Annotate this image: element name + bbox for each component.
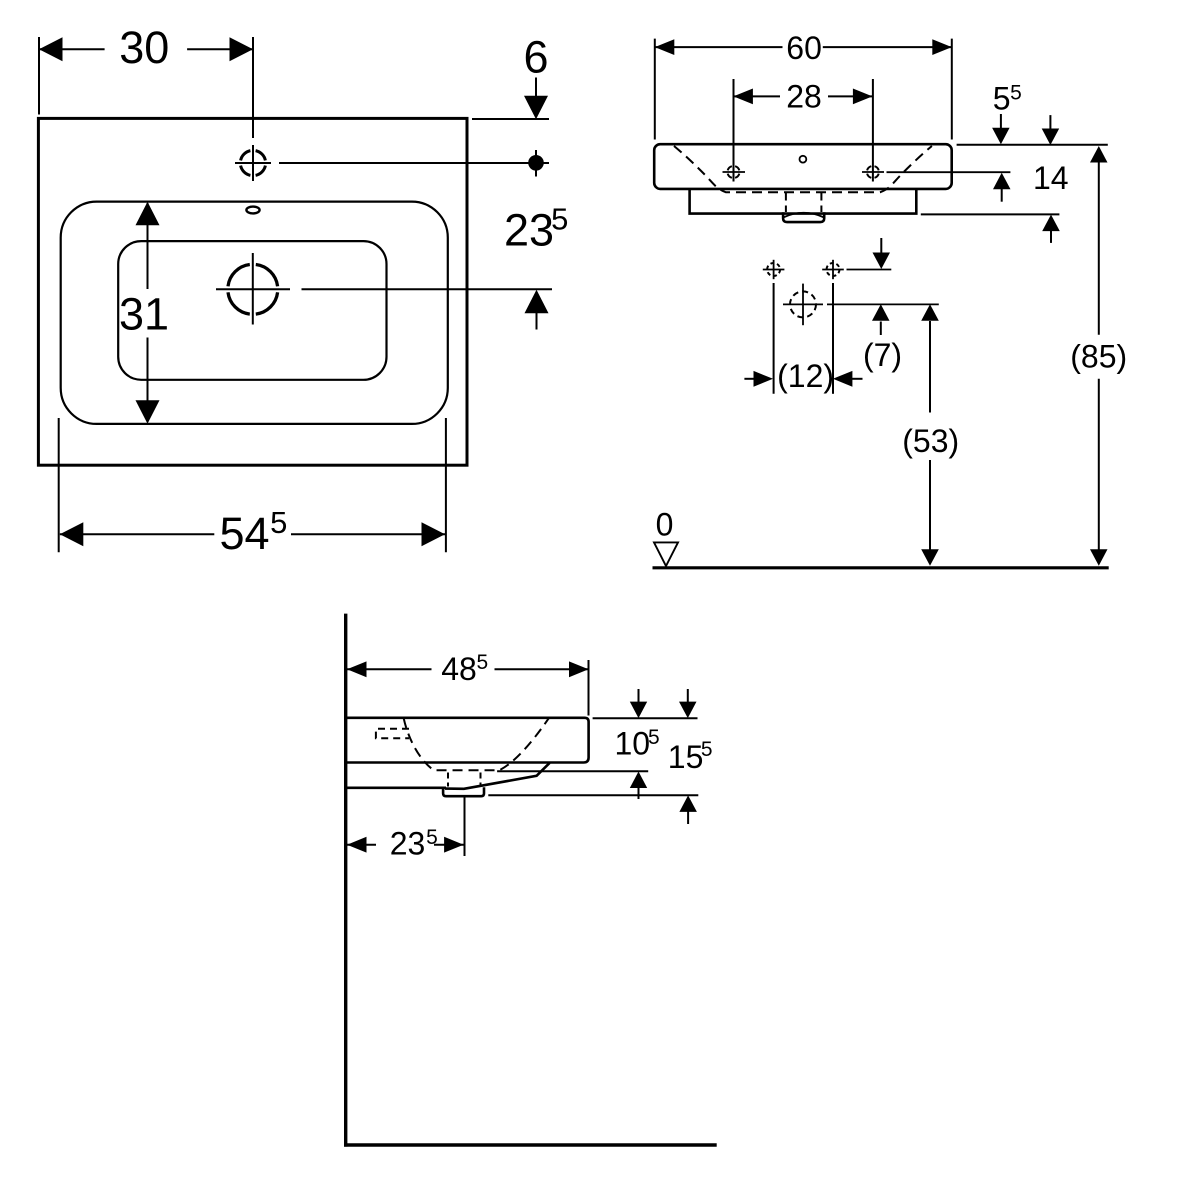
datum 0: label	[656, 507, 674, 543]
dimension 23.5 (side): value label with superscript	[390, 826, 438, 862]
dimension 7: value label	[863, 337, 902, 373]
dimension 10.5: down arrow to slab top edge	[630, 689, 647, 718]
front view: slab top edge extension line right	[957, 144, 1108, 146]
dimension 28 (front): dimension line and arrows	[733, 89, 872, 105]
svg-text:28: 28	[786, 78, 822, 114]
svg-text:5: 5	[648, 726, 660, 749]
plan view: faucet hole centerline vertical	[252, 37, 254, 181]
front view: hidden bowl profile (dashed)	[674, 146, 932, 192]
front view: drain pipe hole (dashed circle)	[783, 284, 939, 326]
front view: pedestal bottom edge extension line	[921, 213, 1060, 215]
front view: basin slab outline	[654, 144, 952, 189]
svg-text:6: 6	[523, 32, 548, 83]
dimension 54.5 (plan): value label with superscript	[219, 505, 287, 559]
side view: hidden bowl profile (dashed)	[404, 718, 549, 770]
plan view: overflow slot	[246, 207, 259, 214]
svg-text:(53): (53)	[902, 423, 959, 459]
svg-text:(12): (12)	[777, 358, 834, 394]
dimension 30 (plan, top): dimension line and arrows	[39, 37, 253, 61]
plan view: rim top edge extension line	[472, 118, 549, 120]
datum 0: open triangle symbol	[654, 542, 678, 566]
dimension 14: up arrow to pedestal bottom extension	[1042, 215, 1060, 243]
dimension 30 (plan, top): value label	[119, 22, 169, 73]
dimension 31 (plan, vertical): dimension line and arrows	[136, 202, 160, 424]
svg-text:5: 5	[993, 80, 1011, 116]
svg-text:60: 60	[786, 30, 822, 66]
plan view: inner basin outline (rounded)	[61, 202, 448, 424]
dimension 7: down arrow to bolt hole centerline	[873, 238, 891, 269]
dimension 14 (front): down arrow to slab top edge	[1042, 115, 1060, 145]
dimension 28 (front): value label	[786, 78, 822, 114]
svg-text:(85): (85)	[1070, 338, 1127, 374]
svg-text:5: 5	[701, 738, 713, 761]
svg-text:31: 31	[119, 288, 169, 339]
side view: hidden drain pipe edges (dashed)	[448, 773, 481, 787]
side view: wall line	[344, 614, 347, 1147]
dimension 12: value label	[777, 358, 834, 394]
dimension 5.5: up arrow to faucet centerline	[993, 173, 1011, 202]
plan view: drain centerline horizontal	[216, 288, 552, 290]
svg-text:5: 5	[426, 826, 438, 849]
dimension 48.5 (side): value label with superscript	[441, 651, 488, 687]
dimension 53: value label	[902, 423, 959, 459]
front view: drain trap cup	[783, 212, 824, 222]
side view: basin slab profile	[346, 718, 589, 763]
dimension 23.5 (plan): value label with superscript	[504, 201, 568, 255]
svg-text:23: 23	[504, 204, 554, 255]
front view: right faucet centerline extension	[887, 171, 1011, 173]
front view: overflow hole	[800, 156, 807, 163]
side view: drain centerline down from cup	[464, 796, 466, 856]
plan view: washbasin outer rim rectangle	[38, 118, 467, 465]
dimension 15.5: down arrow to slab top edge	[679, 689, 697, 718]
dimension 12: witness lines from bolt holes	[774, 283, 833, 394]
plan view: basin flat bottom outline (rounded)	[118, 241, 386, 380]
svg-text:14: 14	[1033, 160, 1069, 196]
dimension 60 (front, top): witness lines	[655, 39, 952, 140]
side view: slab top edge extension line	[593, 717, 698, 719]
dimension 48.5 (side): witness line right	[588, 660, 590, 716]
dimension 5.5: down arrow to slab top edge	[992, 114, 1010, 144]
dimension 7: up arrow to drain centerline	[872, 304, 890, 335]
dimension 48.5 (side): dimension line and arrows	[347, 661, 589, 677]
side view: underside reference line (10.5)	[497, 770, 648, 772]
svg-text:48: 48	[441, 651, 477, 687]
plan view: faucet hole (circle with cardinal gaps)	[241, 151, 266, 176]
side view: underside sloped edge	[445, 763, 550, 789]
front view: floor line	[653, 566, 1109, 569]
svg-text:5: 5	[1010, 81, 1022, 104]
side view: floor line	[344, 1143, 717, 1146]
dimension 6: down arrow to rim top edge	[524, 78, 548, 120]
svg-text:30: 30	[119, 22, 169, 73]
plan view: drain hole (circle with cardinal gaps)	[228, 265, 278, 315]
side view: trap bottom reference line (15.5)	[488, 794, 698, 796]
front view: left faucet hole	[723, 166, 746, 178]
svg-text:10: 10	[615, 725, 651, 761]
plan view: drain centerline vertical	[252, 253, 254, 325]
svg-text:54: 54	[219, 508, 269, 559]
dimension 5.5 (front): value label with superscript	[993, 80, 1022, 116]
svg-text:(7): (7)	[863, 337, 902, 373]
front view: right faucet hole	[862, 166, 884, 178]
dimension 54.5 (plan, bottom): witness line right	[445, 418, 447, 552]
svg-text:5: 5	[270, 505, 287, 540]
dimension 28 (front): witness lines	[734, 79, 873, 182]
dimension 54.5 (plan, bottom): dimension line and arrows	[60, 522, 445, 546]
dimension 23.5 (plan): up arrow to drain centerline	[525, 290, 549, 330]
dimension 60 (front): value label	[786, 30, 822, 66]
dimension 54.5 (plan, bottom): witness line left	[58, 418, 60, 552]
dimension 30 (plan, top): witness line left	[38, 37, 40, 115]
front view: pedestal / mounting body	[690, 189, 917, 214]
dimension 31 (plan): value label	[119, 288, 169, 339]
dimension 15.5: up arrow to trap bottom line	[679, 795, 697, 824]
dimension 14 (front): value label	[1033, 160, 1069, 196]
dimension 10.5: up arrow to underside line	[630, 772, 647, 800]
dimension 6: dot terminator on faucet centerline	[528, 150, 544, 177]
front view: drain pipe hidden edges (dashed)	[786, 193, 822, 213]
svg-text:0: 0	[656, 507, 674, 543]
side view: hidden overflow channel (dashed)	[376, 729, 409, 739]
dimension 12: outside arrows	[744, 371, 862, 387]
svg-text:5: 5	[476, 651, 488, 674]
svg-text:15: 15	[668, 739, 704, 775]
side view: apron bottom edge	[346, 786, 446, 789]
svg-text:5: 5	[551, 201, 568, 236]
dimension 10.5: value label with superscript	[615, 725, 660, 761]
dimension 85 (front): dimension line and arrows	[1090, 146, 1108, 566]
dimension 6 (plan, top right): value label	[523, 32, 548, 83]
dimension 15.5: value label with superscript	[668, 738, 713, 775]
svg-text:23: 23	[390, 826, 426, 862]
side view: drain trap cup	[443, 787, 484, 796]
dimension 53 (front): dimension line and arrows	[921, 304, 939, 565]
front view: right fixing bolt hole (dashed)	[822, 260, 891, 279]
dimension 60 (front): dimension line and arrows	[655, 39, 952, 55]
dimension 85: value label	[1070, 338, 1127, 374]
dimension 23.5 (side): dimension line and arrows	[347, 837, 464, 853]
plan view: faucet hole centerline horizontal (to reference dot)	[235, 162, 549, 164]
front view: left fixing bolt hole (dashed)	[763, 260, 785, 279]
